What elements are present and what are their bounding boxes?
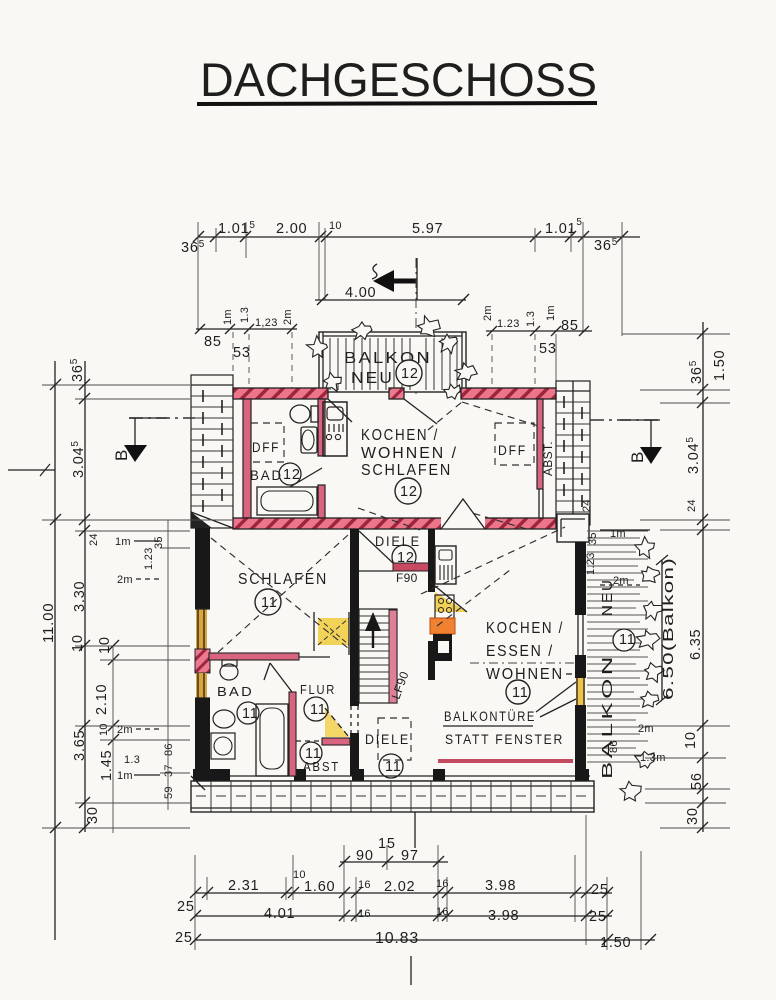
tick marks top chain (193, 231, 628, 242)
svg-text:ABST.: ABST. (541, 441, 555, 476)
svg-text:1,23: 1,23 (255, 317, 278, 329)
ticks left chain (50, 379, 119, 833)
svg-text:3.98: 3.98 (488, 908, 519, 924)
chain line D (195, 939, 655, 941)
svg-text:10: 10 (70, 634, 86, 652)
F90 door wall pink (393, 563, 430, 571)
svg-text:85: 85 (204, 334, 222, 350)
right wall black lower (575, 705, 586, 776)
roof dash-dot line kochen11 (470, 662, 575, 664)
left edge cut mark (8, 469, 55, 471)
bathtub bad11 (256, 704, 288, 776)
ticks right chain (697, 328, 708, 833)
svg-text:BALKONTÜRE: BALKONTÜRE (444, 707, 536, 724)
right roof-ladder strip (556, 381, 590, 525)
plant scribbles right balcony (620, 537, 664, 801)
center axis dash-dot (415, 258, 417, 396)
svg-text:6.35: 6.35 (688, 629, 704, 660)
top wall left segment (pink hatched) (233, 388, 328, 399)
svg-text:WOHNEN: WOHNEN (486, 666, 564, 683)
svg-text:10: 10 (329, 220, 342, 232)
fridge unit11 (435, 546, 456, 584)
wall schlafen/bad pink (209, 653, 299, 660)
svg-text:24: 24 (88, 533, 100, 546)
svg-text:1m: 1m (115, 536, 131, 548)
DFF dashed box left (251, 423, 284, 462)
svg-text:2m: 2m (638, 723, 654, 735)
svg-text:25: 25 (177, 899, 195, 915)
svg-text:STATT FENSTER: STATT FENSTER (445, 731, 564, 747)
sink bad11 (213, 710, 235, 728)
bottom chain verticals (195, 815, 641, 950)
right wall yellow balcony door (576, 678, 585, 705)
balcony decking lines (330, 338, 457, 390)
svg-text:10.83: 10.83 (375, 930, 419, 947)
chain line B (195, 892, 612, 894)
wall bad/flur vertical pink (289, 692, 296, 776)
svg-text:86: 86 (608, 740, 620, 753)
svg-text:3.30: 3.30 (72, 581, 88, 612)
svg-text:10: 10 (97, 636, 113, 654)
svg-text:12: 12 (400, 484, 418, 500)
svg-text:10: 10 (98, 723, 110, 736)
stair pink stringer (389, 610, 397, 703)
svg-text:35: 35 (153, 536, 165, 549)
balcony door swing lines (328, 399, 437, 424)
svg-text:B: B (112, 449, 131, 461)
balcony door pier (389, 388, 404, 399)
bottom balcony railing (191, 781, 594, 812)
red stripe along bottom wall interior (438, 759, 573, 763)
svg-text:11: 11 (261, 595, 278, 611)
pointer lines to balcony door (536, 682, 576, 717)
circle 12 (395, 478, 421, 504)
right wall window gap (578, 615, 583, 655)
svg-text:2m: 2m (282, 309, 294, 325)
orange block (430, 618, 455, 634)
svg-text:3.98: 3.98 (485, 878, 516, 894)
bad right wall vertical (318, 399, 325, 456)
left roof-ladder strip (191, 375, 233, 528)
left 85/53 sub-chain (196, 328, 297, 330)
top wall right segment (461, 388, 556, 399)
svg-text:NEU: NEU (351, 370, 394, 387)
extension verticals from top chain (198, 222, 622, 336)
right wall black mid (575, 655, 586, 678)
extension horizontals left (42, 385, 232, 828)
svg-text:2.02: 2.02 (384, 879, 415, 895)
stair up arrow (365, 612, 381, 631)
diagonal dash hints unit12 (358, 402, 545, 530)
section arrow B left (112, 418, 167, 462)
svg-text:BAD: BAD (217, 684, 254, 699)
bathtub unit12 (257, 487, 317, 515)
svg-text:F90: F90 (396, 571, 418, 585)
svg-text:1.23: 1.23 (585, 552, 597, 575)
6.50 Balkon dim (661, 560, 663, 700)
bad door swing (264, 663, 292, 692)
right interior wall vertical (unit12) (537, 399, 543, 489)
toilet bad11 (220, 664, 238, 680)
svg-text:16: 16 (436, 878, 449, 890)
svg-text:12: 12 (283, 467, 301, 483)
title underline (197, 103, 597, 104)
svg-text:2m: 2m (117, 574, 133, 586)
svg-text:BALKON: BALKON (599, 653, 616, 779)
svg-text:25: 25 (589, 909, 607, 925)
svg-text:1m: 1m (222, 309, 234, 325)
svg-text:53: 53 (233, 345, 251, 361)
door opening middle wall (441, 517, 485, 530)
svg-text:KOCHEN /: KOCHEN / (486, 620, 564, 637)
svg-text:5.97: 5.97 (412, 221, 443, 237)
svg-text:11: 11 (310, 702, 327, 718)
yellow door schlafen->hall (318, 618, 349, 645)
plant scribbles around balcony (306, 316, 477, 399)
toilet unit12 (290, 405, 310, 423)
svg-text:24: 24 (581, 499, 593, 512)
svg-text:2.10: 2.10 (94, 684, 110, 715)
central wall lower black (350, 733, 359, 776)
bottom wall black posts (193, 769, 230, 781)
left chain vertical lines (54, 361, 56, 940)
svg-text:3.65: 3.65 (72, 730, 88, 761)
svg-text:90: 90 (356, 848, 374, 864)
svg-text:KOCHEN /: KOCHEN / (361, 427, 439, 444)
right wall black upper (575, 542, 586, 615)
svg-text:DFF: DFF (498, 442, 527, 458)
kitchen wall black (428, 529, 435, 592)
svg-text:53: 53 (539, 341, 557, 357)
door swing bad 12 (290, 468, 322, 487)
circle 12 balcony (396, 360, 422, 386)
center tick below balcony (414, 812, 416, 848)
svg-text:BAD: BAD (250, 467, 283, 483)
central wall door gap dashed (351, 706, 358, 733)
svg-text:1.3: 1.3 (239, 307, 251, 323)
central wall mid black (350, 620, 359, 706)
small tick mark bottom center (410, 956, 412, 985)
svg-text:B: B (628, 451, 647, 463)
svg-text:15: 15 (378, 836, 396, 852)
svg-text:35: 35 (587, 532, 599, 545)
svg-text:FLUR: FLUR (300, 682, 336, 697)
label ABST 11 (300, 742, 322, 764)
svg-text:2m: 2m (482, 305, 494, 321)
svg-text:59: 59 (163, 786, 175, 799)
svg-text:2.00: 2.00 (276, 221, 307, 237)
right 85/53 sub-chain (486, 330, 592, 332)
right chain vertical line (702, 322, 704, 832)
svg-text:2.31: 2.31 (228, 878, 259, 894)
section arrow B right (620, 420, 662, 464)
kitchen block unit12 (323, 402, 347, 456)
svg-text:16: 16 (358, 908, 371, 920)
svg-text:1m: 1m (117, 770, 133, 782)
svg-text:25: 25 (175, 930, 193, 946)
svg-text:11: 11 (619, 632, 636, 648)
dashed diagonals schlafen (211, 535, 348, 655)
svg-text:25: 25 (591, 882, 609, 898)
svg-text:1.50: 1.50 (600, 935, 631, 951)
left interior wall vertical (unit12 bad) (243, 399, 251, 518)
svg-text:12: 12 (401, 366, 419, 382)
svg-text:11.00: 11.00 (40, 603, 57, 643)
left outer wall segments (195, 528, 210, 609)
svg-text:SCHLAFEN: SCHLAFEN (361, 462, 452, 479)
B-B section dash-dot line (129, 417, 195, 419)
north/entry arrow (390, 279, 417, 284)
stove unit11 (435, 595, 454, 619)
sink unit12 (301, 427, 317, 453)
circle 11 balcony right (613, 629, 635, 651)
kitchen door yellow diagonal (435, 592, 467, 612)
extension horizontals right (622, 334, 730, 828)
pier pink hatch left (195, 649, 210, 673)
svg-text:SCHLAFEN: SCHLAFEN (238, 571, 328, 588)
dashed diagonal kochen11 (421, 527, 565, 626)
oven black (433, 634, 452, 661)
abst wall pink (322, 738, 350, 745)
bad door gap + pier (318, 485, 325, 518)
svg-text:DACHGESCHOSS: DACHGESCHOSS (200, 53, 597, 106)
svg-text:86: 86 (163, 743, 175, 756)
middle wall (pink hatched) (233, 518, 556, 529)
svg-text:30: 30 (85, 806, 101, 824)
svg-text:DIELE: DIELE (365, 731, 410, 747)
window left lower yellow (196, 673, 207, 698)
chain line 15/90/97 (340, 861, 448, 863)
4.00 dim line (315, 299, 466, 301)
svg-text:1.3: 1.3 (124, 754, 140, 766)
top dimension chain line (198, 236, 640, 238)
svg-text:1.23: 1.23 (143, 547, 155, 570)
svg-text:30: 30 (685, 807, 701, 825)
central wall upper (stair left) (350, 529, 359, 620)
right balcony decking (587, 531, 648, 762)
svg-text:2m: 2m (117, 724, 133, 736)
DFF dashed box right (495, 423, 534, 465)
svg-text:DFF: DFF (252, 439, 280, 455)
window left yellow upper (196, 609, 207, 649)
svg-text:1m: 1m (545, 305, 557, 321)
chain line C (195, 915, 612, 917)
svg-text:4.00: 4.00 (345, 285, 376, 301)
svg-text:6.50(Balkon): 6.50(Balkon) (661, 557, 677, 700)
svg-text:1.60: 1.60 (304, 879, 335, 895)
DIELE 11 dashed box (378, 718, 411, 760)
svg-text:11: 11 (512, 685, 529, 701)
svg-text:1.23: 1.23 (497, 318, 520, 330)
svg-text:24: 24 (686, 499, 698, 512)
stair (359, 609, 412, 703)
svg-text:56: 56 (689, 772, 705, 790)
flur door yellow at central wall (325, 708, 349, 737)
svg-text:ESSEN /: ESSEN / (486, 643, 554, 660)
svg-text:WOHNEN /: WOHNEN / (361, 445, 458, 462)
svg-text:10: 10 (683, 731, 699, 749)
svg-text:85: 85 (561, 318, 579, 334)
washer bad11 (211, 733, 235, 759)
svg-text:37: 37 (163, 764, 175, 777)
svg-text:ABST: ABST (303, 759, 340, 774)
balcony top deck (319, 332, 466, 392)
svg-text:16: 16 (358, 879, 371, 891)
svg-text:1.3: 1.3 (525, 311, 537, 327)
svg-text:16: 16 (436, 906, 449, 918)
svg-text:11: 11 (385, 759, 402, 775)
door triangle middle wall unit12 (441, 499, 485, 529)
svg-text:4.01: 4.01 (264, 906, 295, 922)
svg-text:97: 97 (401, 848, 419, 864)
right wall: chimney box (557, 514, 589, 542)
left wall bottom black (195, 698, 210, 776)
svg-text:1.50: 1.50 (712, 350, 728, 381)
bottom outer wall (193, 776, 590, 781)
